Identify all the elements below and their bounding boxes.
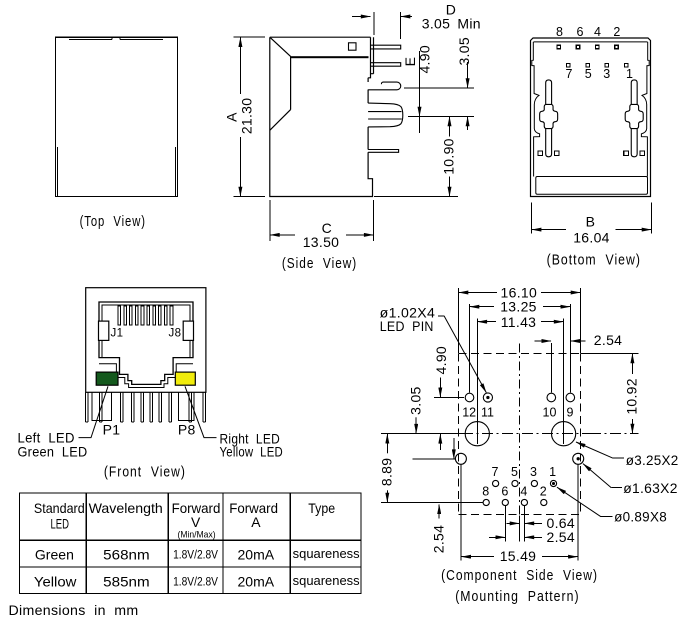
front view below-shelf seam lines <box>99 364 193 388</box>
svg-text:1: 1 <box>549 465 556 479</box>
horizontal centerline through big holes <box>381 433 462 435</box>
svg-text:(Component Side View): (Component Side View) <box>441 568 598 584</box>
svg-text:(Mounting Pattern): (Mounting Pattern) <box>455 589 579 605</box>
front view shield legs <box>86 392 206 422</box>
right slot <box>631 80 637 157</box>
table row lines <box>19 540 361 567</box>
svg-text:2: 2 <box>613 25 620 39</box>
table column lines <box>86 493 290 593</box>
svg-text:ø0.89X8: ø0.89X8 <box>614 509 667 525</box>
dim C line with arrows <box>270 234 295 236</box>
hole 10 <box>547 393 556 402</box>
svg-text:7: 7 <box>566 67 573 81</box>
svg-text:10.90: 10.90 <box>440 138 456 175</box>
leader to big hole (3.25) <box>613 457 624 459</box>
svg-text:LED: LED <box>51 516 70 532</box>
svg-text:(Side View): (Side View) <box>282 256 357 272</box>
side view pin 2 <box>371 63 401 66</box>
svg-text:3: 3 <box>530 465 537 479</box>
side view vent hole <box>349 43 357 50</box>
footprint dashed rectangle <box>459 352 581 354</box>
svg-text:Green LED: Green LED <box>18 444 88 460</box>
svg-text:J1: J1 <box>111 328 124 340</box>
hole-12 row ext line (left) <box>434 397 464 399</box>
svg-text:11.43: 11.43 <box>501 314 537 330</box>
dim 10.90 line <box>449 117 451 137</box>
dim 10.92 line <box>631 354 633 374</box>
dim 16.10 line <box>459 292 497 294</box>
front view contact comb <box>118 306 173 325</box>
svg-text:A: A <box>251 514 261 530</box>
right ext line at hook pin <box>404 87 474 89</box>
svg-text:Yellow: Yellow <box>34 574 77 590</box>
bottom view inner top line <box>534 41 648 43</box>
side view chamfer <box>270 38 291 131</box>
svg-text:13.50: 13.50 <box>303 234 340 250</box>
hole 1.63 left <box>455 453 466 464</box>
svg-text:8.89: 8.89 <box>379 458 395 486</box>
svg-text:7: 7 <box>492 465 499 479</box>
svg-text:8: 8 <box>556 25 563 39</box>
pin squares row 7 5 3 1 <box>567 64 571 68</box>
hole 1.63 right (with center dot) <box>573 453 584 464</box>
dim 11.43 ext lines (through big holes) <box>477 319 563 444</box>
front view socket opening outline <box>99 302 193 384</box>
front view J8 tab <box>183 321 193 340</box>
svg-text:6: 6 <box>501 484 508 498</box>
svg-text:(Top View): (Top View) <box>80 214 146 230</box>
dim 8.89 line <box>386 434 388 503</box>
dim 0.64 arrows <box>507 522 520 524</box>
svg-text:8: 8 <box>482 484 489 498</box>
svg-text:3.05: 3.05 <box>456 37 472 65</box>
dim D extension + arrows <box>374 12 401 39</box>
svg-text:P1: P1 <box>103 422 121 438</box>
bottom view right inner wall <box>641 42 649 177</box>
holes 8 6 4 2 <box>483 499 489 505</box>
svg-text:2.54: 2.54 <box>547 529 575 545</box>
dim A line with arrows <box>239 37 241 94</box>
stray down arrow to 1.63 row line <box>453 438 455 459</box>
left slot <box>546 80 552 157</box>
front view opening inner wall lines <box>102 305 190 358</box>
right clover <box>625 104 643 128</box>
svg-text:11: 11 <box>481 405 494 419</box>
side view shield flange <box>368 37 373 78</box>
dim 2.54 top arrows <box>535 340 551 342</box>
svg-text:6: 6 <box>577 25 584 39</box>
front view left LED post <box>92 392 112 420</box>
big hole right (3.25) <box>552 422 576 446</box>
side view latch block <box>368 103 403 127</box>
svg-text:4.90: 4.90 <box>433 346 449 374</box>
green LED <box>96 372 118 385</box>
svg-text:12: 12 <box>462 405 476 419</box>
svg-text:15.49: 15.49 <box>500 548 537 564</box>
bottom small squares <box>538 151 543 156</box>
svg-text:1.8V/2.8V: 1.8V/2.8V <box>173 577 218 589</box>
vertical centerline (dash-dot) <box>519 344 521 515</box>
left clover <box>540 104 558 128</box>
front view right LED post <box>178 392 194 420</box>
svg-text:Min: Min <box>457 16 480 32</box>
yellow LED leader line <box>185 386 217 437</box>
svg-text:P8: P8 <box>178 422 196 438</box>
top view shield seam bars <box>69 37 163 39</box>
svg-text:squareness: squareness <box>293 574 360 588</box>
ext lines from holes 6 and 4 down <box>505 506 524 542</box>
bottom view bottom band <box>536 177 648 195</box>
svg-text:(Bottom View): (Bottom View) <box>547 253 641 269</box>
top view right side double line <box>174 147 176 197</box>
bottom ext line right <box>374 196 458 198</box>
svg-text:(Front View): (Front View) <box>104 465 186 481</box>
svg-text:4: 4 <box>520 484 527 498</box>
side view bottom pin <box>368 150 399 153</box>
front view outer body <box>86 288 206 393</box>
svg-text:squareness: squareness <box>293 547 360 561</box>
dim 16.10 ext lines <box>459 288 581 353</box>
holes 7 5 3 1 <box>493 480 499 486</box>
1.63 row ext line (left) <box>412 458 455 460</box>
table header texts <box>34 500 335 532</box>
leader to hole 1 (0.89) <box>601 516 613 518</box>
leader to 1.63 hole <box>611 487 622 489</box>
yellow LED <box>175 372 195 385</box>
top view body outline <box>56 37 178 196</box>
table data rows <box>34 547 275 590</box>
svg-text:5: 5 <box>511 465 518 479</box>
svg-text:2.54: 2.54 <box>594 332 622 348</box>
hole 11 (LED pin, with center dot) <box>483 393 492 402</box>
ext lines from 1.63 holes down <box>461 465 578 561</box>
side view hook pin <box>368 82 401 90</box>
front view J1 tab <box>99 321 109 340</box>
svg-text:21.30: 21.30 <box>239 98 255 135</box>
svg-text:ø3.25X2: ø3.25X2 <box>626 452 679 468</box>
pin squares row 8 6 4 2 <box>557 45 561 49</box>
hole-8 row ext line (left) <box>381 502 483 504</box>
svg-text:Green: Green <box>35 547 74 563</box>
svg-text:LED PIN: LED PIN <box>380 318 434 334</box>
white backgrounds for rotated dim texts <box>434 344 450 377</box>
svg-text:A: A <box>224 112 240 122</box>
bottom view body outline <box>531 38 651 197</box>
svg-text:3.05: 3.05 <box>422 16 450 32</box>
dim 11.43 line <box>478 321 497 323</box>
dim 4.90 arrow <box>439 377 441 397</box>
svg-text:10: 10 <box>543 405 557 419</box>
dim 3.05 right arrows <box>467 62 469 88</box>
svg-text:4.90: 4.90 <box>416 45 432 73</box>
svg-text:9: 9 <box>567 405 574 419</box>
dim A extension lines <box>233 37 265 196</box>
side view seam double line <box>291 56 369 58</box>
dim 2.54 bottom arrows <box>489 536 505 538</box>
big hole left (3.25) <box>465 422 489 446</box>
svg-text:Dimensions in mm: Dimensions in mm <box>9 602 139 618</box>
dim 15.49 line <box>461 556 494 558</box>
dim 13.25 line <box>470 306 494 308</box>
svg-text:2: 2 <box>540 484 547 498</box>
top view left side double line <box>57 147 59 197</box>
dim E/4.90 line <box>419 51 421 116</box>
svg-text:13.25: 13.25 <box>500 299 537 315</box>
dim 13.25 ext lines <box>470 304 571 393</box>
svg-text:V: V <box>191 514 201 530</box>
dim 3.05 line <box>415 399 417 433</box>
dim 2.54 lower-left arrow <box>438 504 440 518</box>
side view body outline <box>270 37 373 196</box>
svg-text:20mA: 20mA <box>238 547 275 563</box>
svg-text:ø1.63X2: ø1.63X2 <box>623 480 677 496</box>
svg-text:16.04: 16.04 <box>573 230 610 246</box>
svg-text:Yellow LED: Yellow LED <box>220 444 284 460</box>
svg-text:4: 4 <box>594 25 601 39</box>
dim B extension lines <box>532 202 652 233</box>
dim B line with arrows <box>532 229 566 231</box>
svg-text:Standard: Standard <box>34 500 85 516</box>
bottom view left inner wall <box>532 42 540 177</box>
leader to hole 11 (LED PIN) <box>438 315 444 317</box>
table outer border <box>19 493 361 593</box>
side view pin 1 (top) <box>371 45 401 49</box>
svg-text:B: B <box>586 214 596 230</box>
svg-text:(Min/Max): (Min/Max) <box>178 530 216 541</box>
dim 2.54 top ext line (hole 10) <box>550 343 552 392</box>
svg-text:J8: J8 <box>169 328 182 340</box>
svg-text:3.05: 3.05 <box>408 386 424 414</box>
svg-text:2.54: 2.54 <box>430 525 446 553</box>
svg-text:568nm: 568nm <box>103 547 149 563</box>
top dashed line extension to 10.92 <box>581 352 639 354</box>
svg-text:5: 5 <box>585 67 592 81</box>
svg-text:585nm: 585nm <box>103 574 149 590</box>
hole 9 <box>566 393 575 402</box>
stray up arrow below centerline <box>439 434 441 450</box>
svg-text:1: 1 <box>626 67 633 81</box>
svg-text:3: 3 <box>603 67 610 81</box>
dim C extension lines <box>270 200 374 241</box>
right ext line at latch <box>408 116 474 118</box>
svg-text:20mA: 20mA <box>238 574 275 590</box>
green LED leader line <box>79 386 109 437</box>
hole 12 <box>465 393 474 402</box>
svg-text:10.92: 10.92 <box>624 378 640 415</box>
svg-text:Type: Type <box>308 500 335 516</box>
svg-text:Wavelength: Wavelength <box>89 500 163 516</box>
svg-text:1.8V/2.8V: 1.8V/2.8V <box>173 550 218 562</box>
